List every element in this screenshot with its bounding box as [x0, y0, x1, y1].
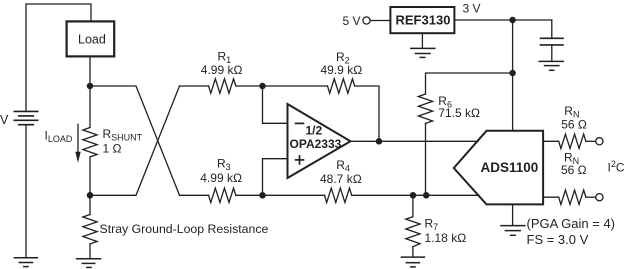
svg-text:REF3130: REF3130 — [396, 13, 451, 28]
wire shunt to node B — [89, 157, 91, 195]
wire R1 to node C — [236, 85, 263, 87]
node H (R6 bottom tap) — [423, 192, 430, 199]
current arrow I_LOAD — [75, 124, 80, 163]
wire stray resistor to ground — [89, 244, 91, 259]
wire crossover to R3 — [180, 194, 209, 196]
wire ADS1100 to ground — [512, 204, 514, 225]
wire 3V rail down to ADS1100 — [512, 20, 514, 131]
wire ADS1100 to RN bottom — [543, 196, 559, 198]
svg-text:4.99 kΩ: 4.99 kΩ — [200, 171, 242, 185]
svg-text:Stray Ground-Loop Resistance: Stray Ground-Loop Resistance — [100, 222, 269, 236]
node F (3V rail top) — [509, 17, 516, 24]
svg-text:I2C: I2C — [608, 159, 625, 175]
Load box — [67, 21, 115, 56]
label minus — [296, 122, 304, 124]
resistor R3 — [209, 188, 236, 202]
wire R6 to bottom line — [425, 123, 427, 195]
terminal circle (SCL) — [596, 194, 603, 201]
resistor RN (top) — [559, 134, 586, 148]
svg-text:4.99 kΩ: 4.99 kΩ — [201, 63, 243, 77]
svg-text:R7: R7 — [425, 216, 439, 232]
node E (output node) — [376, 138, 383, 145]
svg-text:Load: Load — [78, 32, 106, 46]
REF3130 box U2 — [390, 7, 454, 33]
svg-text:1.18 kΩ: 1.18 kΩ — [425, 231, 467, 245]
svg-text:(PGA Gain = 4): (PGA Gain = 4) — [527, 216, 616, 231]
svg-text:56 Ω: 56 Ω — [561, 163, 587, 177]
svg-text:ADS1100: ADS1100 — [481, 160, 539, 175]
node G (R6 tap) — [509, 70, 516, 77]
ground (battery rail) — [14, 258, 37, 267]
resistor: stray ground-loop resistance — [83, 215, 97, 244]
ground (stray) — [77, 259, 101, 268]
svg-text:3 V: 3 V — [463, 2, 481, 16]
node I (R7 tap) — [410, 192, 417, 199]
resistor R_SHUNT — [83, 128, 97, 157]
terminal circle (SDA) — [596, 138, 603, 145]
wire R2 to output node — [355, 86, 379, 141]
wire RN top to terminal — [586, 140, 596, 142]
ground (ADS1100) — [501, 226, 525, 236]
wire node B to stray resistor — [89, 195, 91, 214]
wire R3 to node D — [236, 194, 263, 196]
resistor R1 — [209, 79, 236, 93]
ground (capacitor) — [539, 61, 563, 70]
resistor RN (bottom) — [559, 190, 586, 204]
wire R7 to ground — [412, 247, 414, 257]
wire node I to R7 — [412, 195, 414, 216]
wire REF3130 to ground — [421, 33, 423, 48]
svg-text:1 Ω: 1 Ω — [103, 141, 122, 155]
svg-text:5 V: 5 V — [343, 14, 361, 28]
ground (R7) — [401, 257, 424, 267]
svg-text:V: V — [0, 113, 9, 127]
wire RN bottom to terminal — [586, 196, 596, 198]
wire 5V to REF3130 — [370, 20, 390, 22]
wire op-amp output to ADS1100 upper input — [351, 140, 479, 142]
wire crossover to R1 — [180, 85, 209, 87]
wire Load to node A — [89, 56, 91, 86]
resistor R6 — [418, 94, 432, 123]
wire R4 to ADS1100 lower input — [352, 194, 479, 196]
wire ADS1100 to RN top — [543, 140, 559, 142]
wire node A to shunt — [89, 86, 91, 128]
op-amp U1 OPA2333 — [288, 104, 351, 178]
svg-text:RSHUNT: RSHUNT — [103, 127, 143, 143]
node D (non-inverting input node) — [259, 192, 266, 199]
ground (REF3130) — [411, 48, 435, 57]
svg-text:56 Ω: 56 Ω — [561, 117, 587, 131]
capacitor C1 — [541, 38, 564, 45]
svg-text:71.5 kΩ: 71.5 kΩ — [438, 106, 480, 120]
resistor R2 — [328, 79, 355, 93]
wire down to capacitor — [551, 20, 553, 38]
svg-text:48.7 kΩ: 48.7 kΩ — [320, 172, 362, 186]
wire REF3130 output to cap — [454, 19, 551, 21]
wire node A to crossover (goes to R3 line) — [90, 86, 180, 195]
wire node D to R4 — [263, 194, 325, 196]
svg-text:OPA2333: OPA2333 — [290, 137, 342, 151]
terminal circle 5V — [363, 17, 370, 24]
wire node B to crossover (goes to R1 line) — [90, 86, 180, 195]
svg-text:49.9 kΩ: 49.9 kΩ — [321, 63, 363, 77]
wire node C down to inverting input — [263, 86, 288, 123]
svg-text:1/2: 1/2 — [306, 124, 323, 138]
ADC U3 ADS1100 — [454, 131, 543, 205]
wire battery top to Load box — [26, 4, 91, 111]
resistor R4 — [325, 188, 352, 202]
wire battery bottom to ground — [25, 125, 27, 258]
resistor R7 — [406, 217, 420, 247]
wire capacitor to ground — [551, 45, 553, 62]
node A (shunt top) — [87, 83, 94, 90]
svg-text:R3: R3 — [217, 157, 231, 173]
battery V — [14, 111, 37, 124]
wire node C to R2 — [263, 85, 328, 87]
svg-text:ILOAD: ILOAD — [45, 129, 73, 145]
svg-text:FS = 3.0 V: FS = 3.0 V — [527, 232, 589, 247]
wire node G to R6 — [426, 73, 513, 94]
label plus — [296, 159, 304, 161]
node B (shunt bottom) — [87, 192, 94, 199]
node C (inverting input node) — [259, 83, 266, 90]
wire node D up to non-inverting input — [263, 159, 288, 196]
